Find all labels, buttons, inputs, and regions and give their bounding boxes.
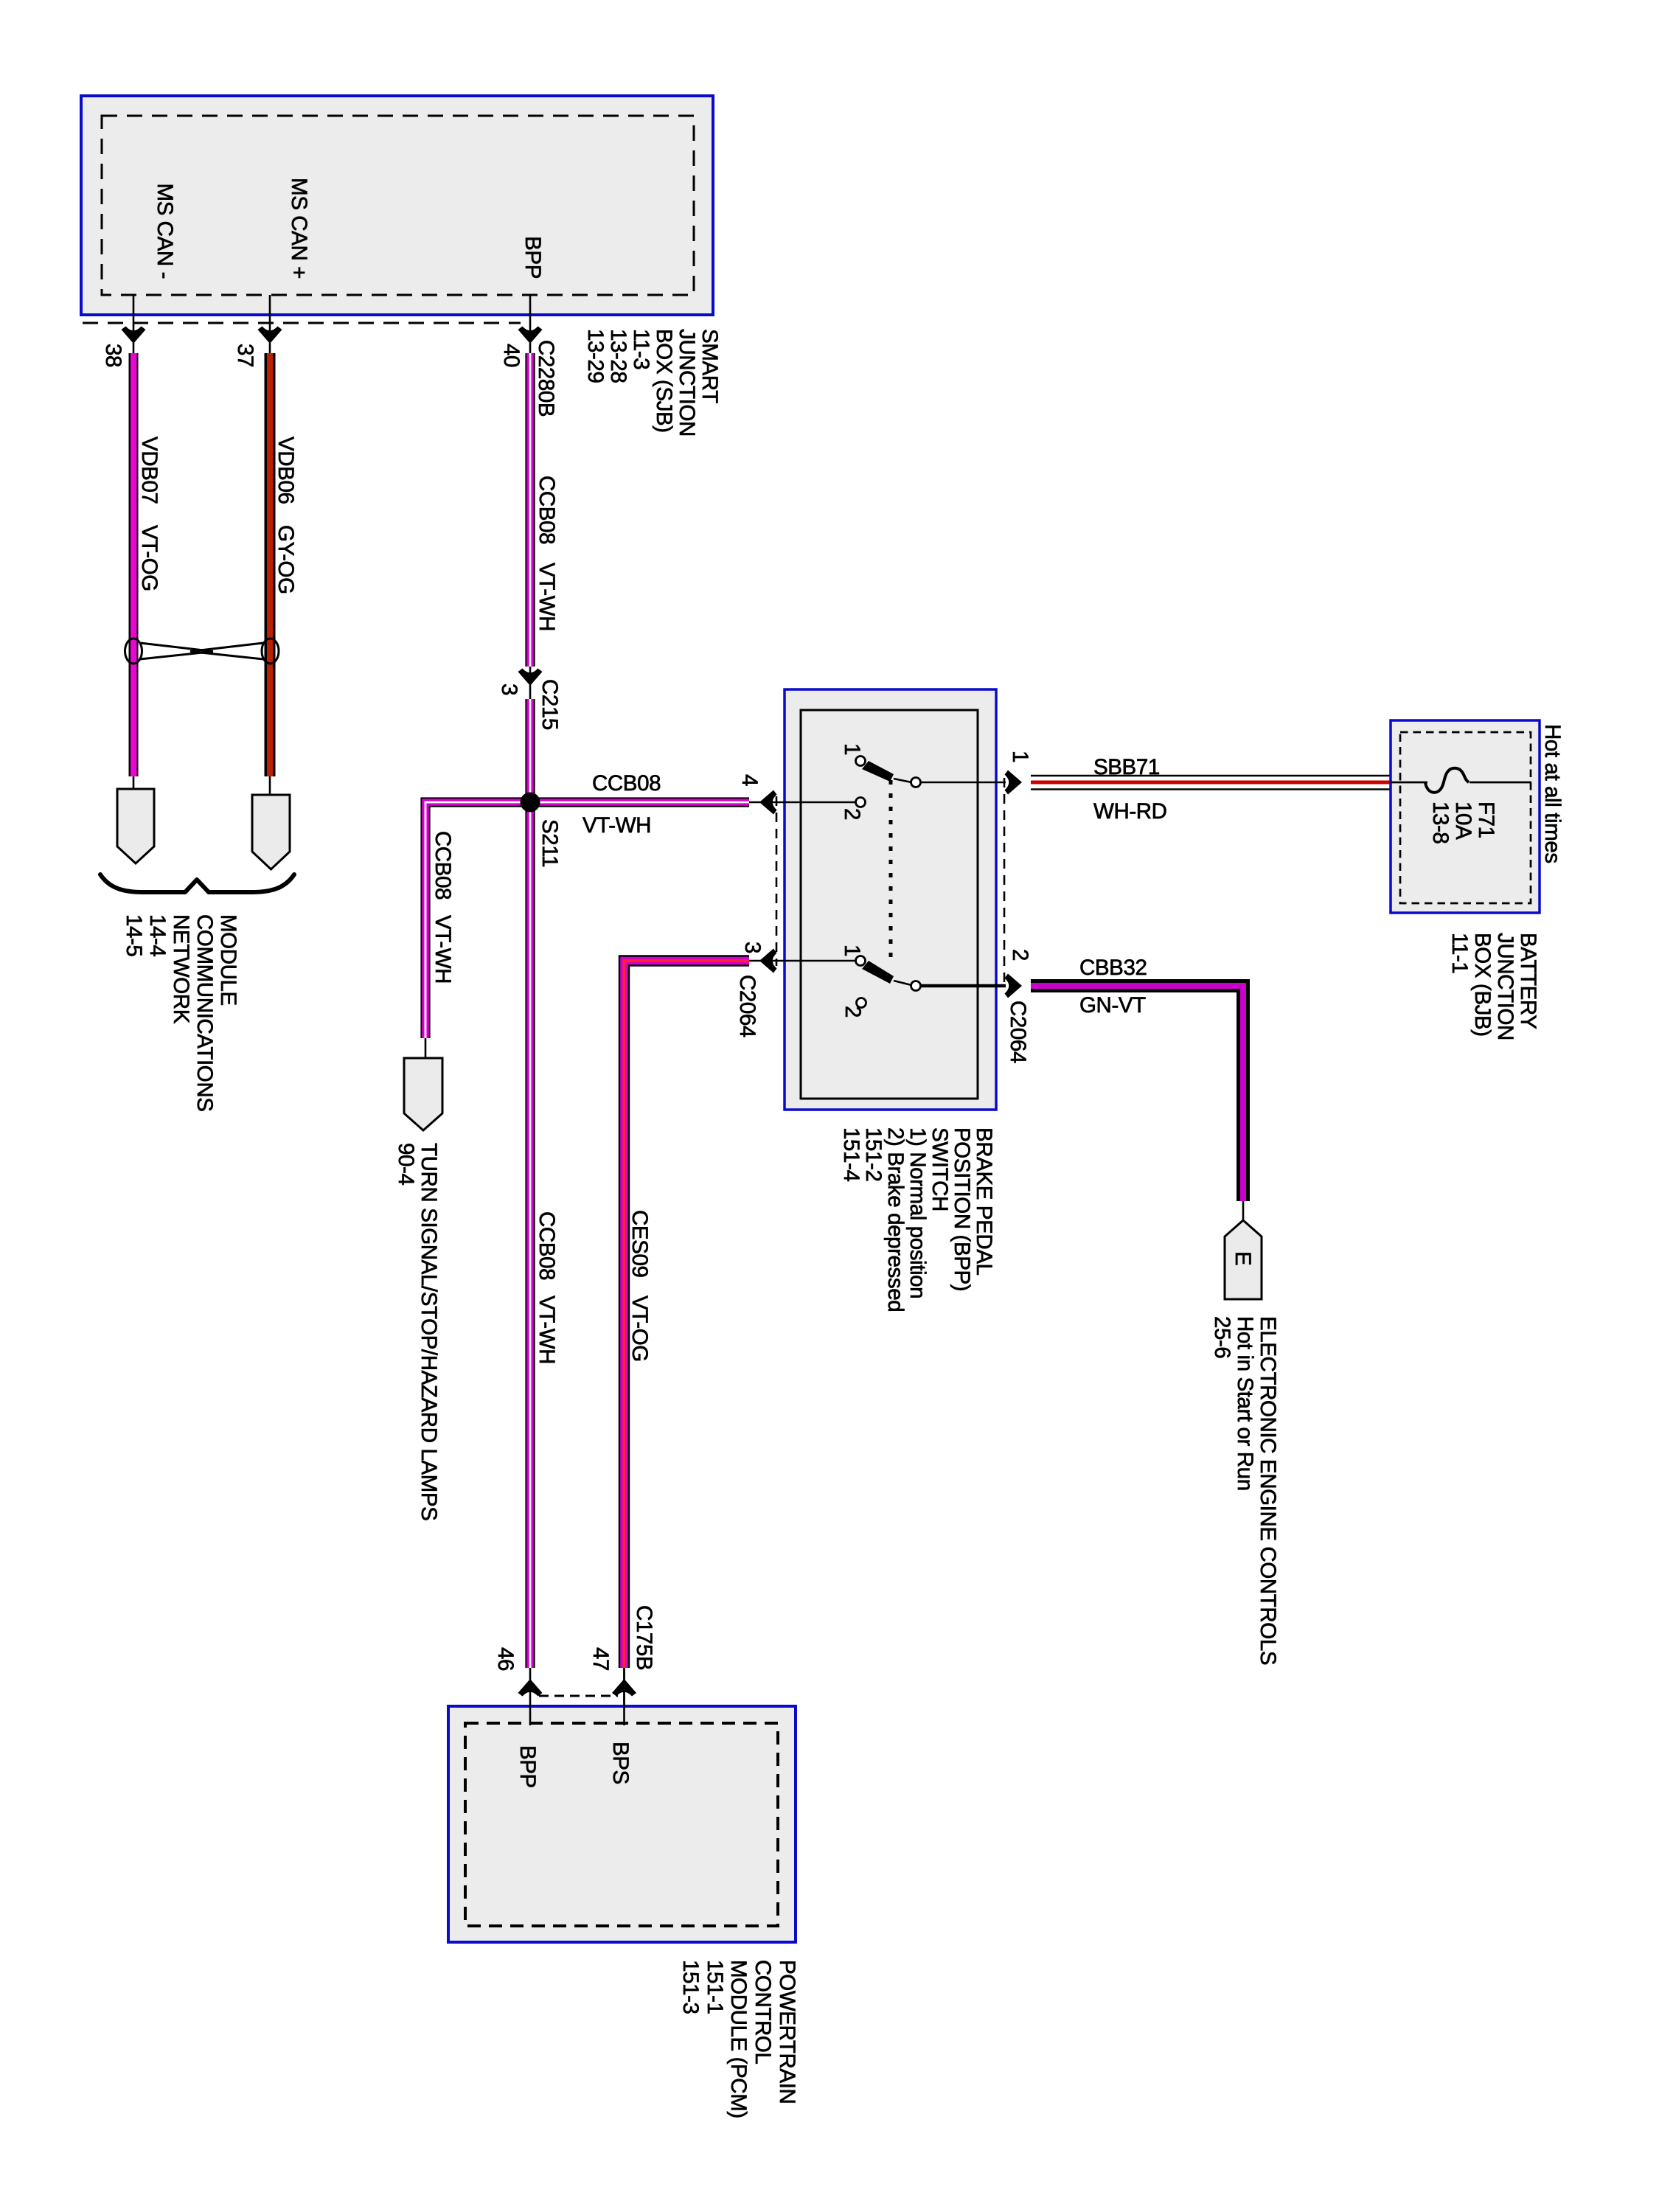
BPP switch lower contact 1	[856, 956, 866, 966]
svg-text:NETWORK: NETWORK	[169, 914, 193, 1024]
svg-text:C2064: C2064	[735, 975, 759, 1037]
brace	[100, 874, 294, 892]
wire VDB07 VT-OG	[129, 353, 139, 790]
BPP switch upper pivot lead	[894, 779, 911, 782]
svg-text:BPS: BPS	[608, 1742, 633, 1784]
svg-text:VDB06: VDB06	[274, 437, 298, 504]
wire SBB71 WH-RD	[1031, 776, 1391, 790]
svg-text:13-8: 13-8	[1428, 801, 1453, 844]
wire VDB06 GY-OG	[265, 353, 276, 796]
svg-text:1: 1	[1008, 751, 1032, 762]
label brake pedal position switch	[839, 1127, 996, 1312]
svg-text:WH-RD: WH-RD	[1093, 799, 1167, 824]
svg-text:BOX (SJB): BOX (SJB)	[652, 329, 676, 433]
svg-text:MODULE: MODULE	[216, 914, 240, 1006]
label electronic engine controls	[1210, 1316, 1280, 1665]
svg-text:151-3: 151-3	[678, 1960, 703, 2014]
svg-text:SBB71: SBB71	[1093, 755, 1160, 779]
svg-text:MODULE (PCM): MODULE (PCM)	[726, 1960, 751, 2118]
connector C2064 dashed line (right)	[1004, 778, 1006, 988]
SJB name label	[583, 329, 722, 437]
BPP switch upper contact 1	[856, 757, 866, 766]
label battery junction box	[1447, 933, 1540, 1040]
connector C2064 dashed line (left)	[776, 796, 778, 966]
svg-text:90-4: 90-4	[394, 1143, 418, 1185]
svg-text:14-5: 14-5	[122, 914, 146, 956]
SJB pin 37	[233, 295, 282, 367]
svg-text:CONTROL: CONTROL	[751, 1960, 775, 2064]
BPP pin 2 lead	[920, 974, 1022, 998]
svg-text:BOX (BJB): BOX (BJB)	[1470, 933, 1495, 1037]
wire CCB08 VT-WH (C215 to PCM)	[525, 699, 535, 1668]
smart junction box SJB	[81, 96, 713, 315]
svg-text:COMMUNICATIONS: COMMUNICATIONS	[192, 914, 217, 1112]
BPP switch linkage dotted line	[889, 780, 893, 964]
svg-text:F71: F71	[1474, 801, 1498, 838]
svg-text:11-3: 11-3	[629, 329, 653, 369]
BPP switch lower contact 2	[857, 998, 866, 1008]
branch wire CCB08 to turn signal lamps	[425, 802, 530, 1059]
svg-text:BRAKE PEDAL: BRAKE PEDAL	[972, 1127, 996, 1276]
connector C175 dashed line	[539, 1695, 618, 1697]
svg-text:BPP: BPP	[515, 1745, 540, 1788]
svg-text:MS CAN -: MS CAN -	[153, 183, 177, 279]
svg-text:GN-VT: GN-VT	[1079, 993, 1146, 1018]
svg-text:BPP: BPP	[521, 236, 545, 279]
fuse F71	[1391, 768, 1531, 793]
svg-text:2: 2	[1008, 949, 1032, 961]
svg-text:Hot at all times: Hot at all times	[1540, 724, 1565, 863]
SJB connector dashed line	[83, 322, 521, 324]
svg-text:MS CAN +: MS CAN +	[287, 178, 311, 279]
svg-text:CCB08: CCB08	[592, 771, 661, 796]
svg-text:CCB08: CCB08	[431, 831, 455, 900]
wire CCB08 S211 to BPP pin 4	[530, 797, 749, 807]
BPP switch lower blade	[862, 961, 894, 984]
svg-text:S211: S211	[538, 819, 562, 867]
svg-text:13-28: 13-28	[606, 329, 630, 383]
svg-text:2: 2	[841, 1006, 865, 1018]
BPP switch upper pivot	[911, 778, 921, 787]
fuse label F71 10A 13-8	[1428, 801, 1498, 844]
svg-text:VDB07: VDB07	[137, 437, 161, 504]
svg-text:37: 37	[233, 344, 257, 367]
off-page connector E (electronic engine controls)	[1225, 1220, 1262, 1299]
svg-text:2) Brake depressed: 2) Brake depressed	[883, 1127, 908, 1312]
svg-text:3: 3	[497, 684, 521, 695]
svg-text:CBB32: CBB32	[1079, 956, 1147, 980]
svg-text:POSITION (BPP): POSITION (BPP)	[950, 1127, 974, 1291]
svg-text:VT-WH: VT-WH	[431, 915, 455, 984]
SJB pin 38	[101, 295, 146, 367]
off-page connector (MS CAN -)	[117, 789, 154, 863]
svg-text:BATTERY: BATTERY	[1516, 933, 1540, 1029]
label turn signal lamps	[394, 1143, 441, 1520]
PCM pin 47	[588, 1647, 636, 1725]
svg-text:40: 40	[499, 344, 524, 367]
splice S211	[521, 793, 540, 813]
battery junction box BJB	[1391, 720, 1540, 913]
svg-text:VT-OG: VT-OG	[137, 525, 161, 591]
svg-text:14-4: 14-4	[145, 914, 170, 956]
svg-text:38: 38	[101, 344, 125, 367]
svg-text:JUNCTION: JUNCTION	[675, 329, 699, 437]
BPP pin 1 lead	[920, 771, 1022, 795]
svg-text:CCB08: CCB08	[535, 476, 559, 544]
svg-text:CES09: CES09	[627, 1210, 652, 1277]
svg-text:GY-OG: GY-OG	[274, 525, 298, 594]
svg-text:C215: C215	[538, 679, 562, 730]
svg-text:47: 47	[588, 1647, 613, 1671]
svg-text:SWITCH: SWITCH	[928, 1127, 952, 1211]
SJB pin 40	[499, 295, 543, 367]
svg-text:SMART: SMART	[698, 329, 722, 403]
svg-text:JUNCTION: JUNCTION	[1493, 933, 1517, 1040]
svg-text:10A: 10A	[1451, 801, 1475, 840]
wire CBB32 GN-VT	[1031, 986, 1243, 1221]
BPP switch upper blade	[862, 761, 894, 782]
BPP pin 4 lead	[749, 790, 856, 815]
powertrain control module PCM	[448, 1706, 796, 1942]
svg-text:151-4: 151-4	[839, 1127, 863, 1181]
label powertrain control module	[678, 1960, 799, 2118]
BPP switch lower pivot lead	[894, 981, 911, 985]
svg-text:TURN SIGNAL/STOP/HAZARD LAMPS: TURN SIGNAL/STOP/HAZARD LAMPS	[417, 1143, 441, 1520]
off-page connector (turn signal)	[404, 1058, 442, 1130]
off-page connector (MS CAN +)	[252, 795, 290, 869]
svg-text:E: E	[1231, 1251, 1255, 1265]
svg-text:11-1: 11-1	[1447, 933, 1472, 973]
svg-text:C175B: C175B	[632, 1605, 656, 1670]
svg-text:VT-WH: VT-WH	[582, 813, 651, 838]
BPP switch upper contact 2	[856, 798, 866, 807]
svg-text:VT-WH: VT-WH	[535, 563, 559, 631]
svg-text:2: 2	[840, 808, 864, 820]
twisted pair symbol	[125, 639, 279, 664]
svg-text:1: 1	[840, 743, 864, 755]
svg-text:25-6: 25-6	[1210, 1316, 1234, 1358]
connector C215 arrow	[518, 669, 543, 686]
svg-text:VT-OG: VT-OG	[627, 1295, 652, 1362]
svg-text:C2064: C2064	[1006, 1001, 1030, 1063]
svg-text:151-2: 151-2	[861, 1127, 886, 1181]
BPP switch lower pivot	[911, 981, 921, 991]
svg-text:4: 4	[737, 774, 762, 786]
brake pedal position switch box	[785, 689, 996, 1110]
svg-text:CCB08: CCB08	[535, 1211, 559, 1280]
svg-text:1: 1	[840, 945, 864, 956]
svg-text:VT-WH: VT-WH	[535, 1295, 559, 1364]
wire CES09 VT-OG (BPP pin3 to PCM pin 47)	[625, 961, 750, 1725]
svg-text:POWERTRAIN: POWERTRAIN	[775, 1960, 799, 2104]
svg-text:Hot in Start or Run: Hot in Start or Run	[1233, 1316, 1257, 1491]
svg-text:46: 46	[493, 1647, 518, 1671]
svg-text:C2280B: C2280B	[534, 340, 558, 417]
label module communications network	[122, 914, 240, 1112]
svg-text:ELECTRONIC ENGINE CONTROLS: ELECTRONIC ENGINE CONTROLS	[1256, 1316, 1280, 1665]
BPP pin 3 lead	[749, 949, 855, 973]
svg-text:13-29: 13-29	[583, 329, 608, 383]
svg-text:3: 3	[740, 942, 765, 953]
svg-text:151-1: 151-1	[703, 1960, 727, 2014]
wire CCB08 VT-WH (SJB to C215)	[525, 353, 535, 699]
svg-text:1) Normal position: 1) Normal position	[905, 1127, 930, 1298]
PCM pin 46	[493, 1647, 543, 1725]
